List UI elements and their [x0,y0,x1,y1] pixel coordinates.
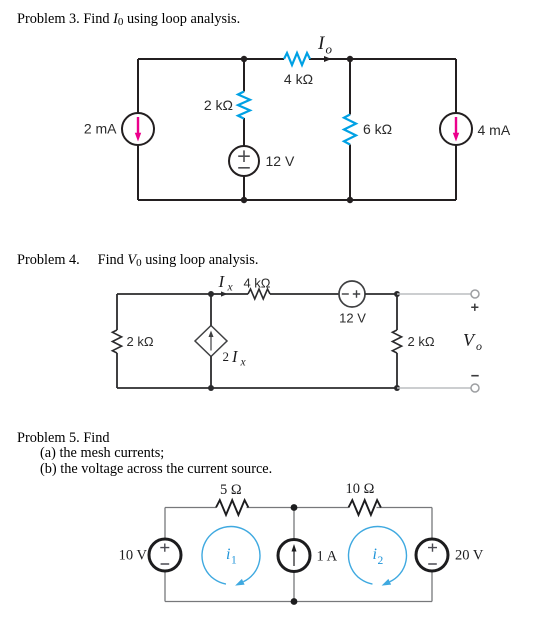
wire: outer loop (gray) [165,508,432,602]
svg-text:I: I [218,272,226,291]
svg-text:4 mA: 4 mA [478,122,511,138]
mesh current loop i2 [348,527,406,586]
svg-text:o: o [326,42,333,57]
svg-text:2: 2 [223,349,230,364]
mesh current loop i1 [202,527,260,586]
svg-text:12 V: 12 V [339,311,366,326]
svg-text:2 mA: 2 mA [84,121,117,137]
svg-text:12 V: 12 V [266,153,295,169]
wire: top 4k branch [244,58,350,60]
svg-text:i: i [373,546,377,563]
Problem 3 heading [17,11,240,27]
svg-text:2: 2 [378,555,384,567]
wire: 6k branch [349,59,351,200]
label + output [471,304,478,311]
svg-text:10 Ω: 10 Ω [346,481,375,497]
svg-text:4 kΩ: 4 kΩ [243,276,270,291]
node bottom-right-middle [347,197,353,203]
svg-text:6 kΩ: 6 kΩ [363,121,392,137]
voltage source 12 V [339,281,365,307]
wire: right branch [396,294,398,388]
current arrow Ix [213,291,228,296]
dependent source 2Ix (diamond) [195,326,227,357]
svg-text:V: V [463,330,476,350]
voltage source 12 V [229,146,259,176]
current source 1 A [278,540,310,572]
node top-mid [208,291,214,297]
svg-text:2 kΩ: 2 kΩ [127,334,154,349]
current source 2 mA [122,113,154,145]
node top-middle [241,56,247,62]
node top-right-middle [347,56,353,62]
svg-text:2 kΩ: 2 kΩ [204,97,233,113]
resistor 10 Ohm [349,500,381,515]
wire: left edge and top-left [117,294,211,388]
wire: top-right and right edge [350,59,456,200]
resistor 5 Ohm [216,500,248,515]
svg-text:o: o [476,339,482,353]
voltage source 10 V [149,539,181,571]
svg-text:2 kΩ: 2 kΩ [408,334,435,349]
wire: top-left segment [138,58,244,60]
svg-text:10 V: 10 V [119,548,148,564]
node bottom-right [394,385,400,391]
svg-text:4 kΩ: 4 kΩ [284,71,313,87]
svg-text:5 Ω: 5 Ω [220,482,242,498]
Problem 5 heading [17,430,110,446]
node top-right [394,291,400,297]
wire: source to right node [365,293,397,295]
resistor 4 kOhm (horizontal) [248,289,270,299]
voltage source 20 V [416,539,448,571]
wire: top middle segment [211,293,339,295]
current source 4 mA [440,113,472,145]
wire: gray leads to output terminals [397,294,471,388]
wire: 12V source to bottom [243,176,245,200]
terminal top (open circle) [471,290,479,298]
resistor 2 kOhm (vertical, cyan) [238,92,250,119]
wire: diamond branch [210,294,212,388]
wire: bottom [138,199,456,201]
node bottom-mid [291,598,298,605]
svg-text:x: x [227,282,234,294]
node bottom-mid [208,385,214,391]
node bottom-middle [241,197,247,203]
current arrow Io [312,56,332,62]
label minus output [471,375,478,377]
svg-text:I: I [231,347,239,366]
wire: left edge [137,59,139,200]
svg-text:20 V: 20 V [455,548,484,564]
wire: middle branch upper [243,59,245,146]
resistor 6 kOhm (vertical, cyan) [344,115,356,145]
svg-text:i: i [226,546,230,563]
terminal bottom (open circle) [471,384,479,392]
svg-text:x: x [240,357,247,369]
resistor 2 kOhm right (vertical) [392,330,401,353]
wire: bottom [117,387,397,389]
Problem 4 heading [17,252,258,268]
svg-text:1 A: 1 A [317,549,338,565]
resistor 4 kOhm (horizontal, cyan) [284,53,310,65]
svg-text:1: 1 [231,555,237,567]
resistor 2 kOhm left (vertical) [112,330,121,353]
node top-mid [291,504,298,511]
